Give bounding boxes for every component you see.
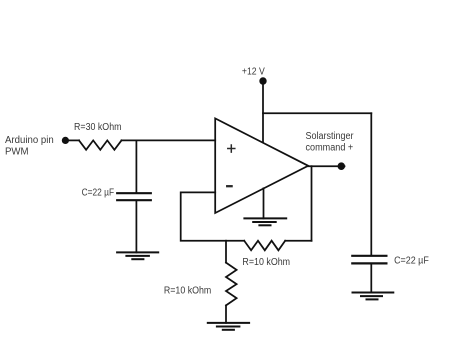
wire: inverting input to feedback left edge bbox=[181, 192, 245, 240]
wire: +12V rail to the right (to C2 branch) bbox=[263, 112, 371, 114]
svg-text:R=10 kOhm: R=10 kOhm bbox=[164, 286, 211, 297]
ground G4 bbox=[353, 293, 394, 300]
op-amp U1 plus input marking bbox=[228, 145, 235, 152]
svg-text:C=22 µF: C=22 µF bbox=[82, 187, 115, 198]
op-amp U1 minus input marking bbox=[227, 185, 231, 187]
op-amp U1 triangle body bbox=[215, 118, 308, 213]
wire: R3 to ground G3 bbox=[225, 305, 227, 323]
ground G1 bbox=[117, 252, 158, 259]
wire: feedback tap from output down to bottom rail bbox=[311, 166, 313, 241]
svg-text:PWM: PWM bbox=[5, 147, 29, 158]
wire: C2 to ground G4 bbox=[370, 264, 372, 292]
svg-text:command +: command + bbox=[306, 143, 354, 154]
svg-text:C=22 µF: C=22 µF bbox=[394, 256, 429, 267]
wire: +12V terminal down to op-amp V+ pin bbox=[262, 81, 264, 142]
wire: junction at bottom rail down to R3 bbox=[225, 241, 227, 263]
svg-text:Solarstinger: Solarstinger bbox=[306, 131, 355, 142]
node: +12 V supply terminal bbox=[259, 77, 266, 84]
wire: node B down to C1 bbox=[135, 140, 137, 192]
wire: R1 to op-amp non-inverting input (junction at node B) bbox=[122, 139, 216, 141]
ground G3 bbox=[208, 323, 249, 330]
wire: op-amp ground pin down to G2 bbox=[263, 188, 265, 218]
resistor R1 value R=30 kOhm bbox=[79, 140, 122, 149]
resistor R2 value R=10 kOhm (feedback) bbox=[244, 241, 285, 251]
svg-text:Arduino pin: Arduino pin bbox=[5, 135, 54, 146]
node: Solarstinger command + output terminal bbox=[338, 162, 346, 170]
wire: R2 to feedback right edge bbox=[285, 240, 311, 242]
wire: op-amp output to output node bbox=[308, 165, 344, 167]
ground G2 bbox=[244, 218, 286, 225]
wire: input node to R1 bbox=[65, 139, 79, 141]
svg-text:+12 V: +12 V bbox=[242, 66, 265, 77]
node A: Arduino PWM input terminal bbox=[62, 137, 69, 144]
label: Solarstinger command + bbox=[306, 131, 355, 154]
svg-text:R=30 kOhm: R=30 kOhm bbox=[74, 122, 122, 133]
capacitor C2 value C=22 uF bbox=[352, 256, 386, 264]
label: Arduino pin PWM bbox=[5, 135, 54, 158]
resistor R3 value R=10 kOhm (to ground) bbox=[226, 263, 237, 306]
svg-text:R=10 kOhm: R=10 kOhm bbox=[242, 257, 290, 268]
capacitor C1 value C=22 uF bbox=[117, 193, 151, 200]
wire: right rail down to C2 bbox=[370, 113, 372, 255]
wire: C1 to ground G1 bbox=[135, 201, 137, 252]
